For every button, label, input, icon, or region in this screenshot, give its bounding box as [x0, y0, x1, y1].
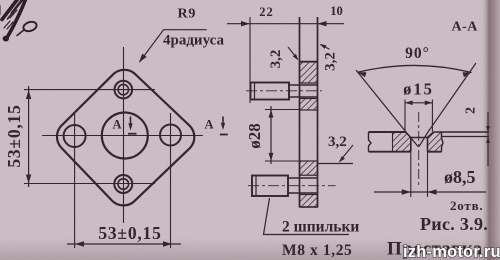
svg-text:3,2: 3,2 [328, 134, 347, 150]
svg-text:90°: 90° [405, 45, 430, 62]
svg-text:53±0,15: 53±0,15 [98, 223, 161, 243]
svg-text:A: A [205, 118, 214, 132]
svg-text:53±0,15: 53±0,15 [4, 104, 24, 167]
svg-text:2: 2 [464, 107, 479, 114]
svg-text:ø15: ø15 [403, 80, 434, 99]
svg-text:A-A: A-A [452, 20, 479, 35]
svg-text:10: 10 [330, 4, 343, 18]
svg-text:Рис. 3.9.: Рис. 3.9. [420, 214, 488, 234]
svg-text:ø8,5: ø8,5 [444, 167, 476, 187]
svg-text:4радиуса: 4радиуса [163, 33, 224, 49]
svg-text:A: A [113, 118, 122, 132]
svg-text:М8 х 1,25: М8 х 1,25 [282, 242, 352, 259]
svg-text:R9: R9 [178, 7, 197, 22]
svg-text:3,2: 3,2 [323, 52, 339, 71]
svg-text:ø28: ø28 [245, 123, 264, 149]
svg-text:22: 22 [259, 5, 274, 19]
svg-text:2 шпильки: 2 шпильки [282, 219, 359, 236]
svg-text:izh-motor.ru: izh-motor.ru [403, 243, 500, 260]
svg-text:2отв.: 2отв. [450, 198, 484, 213]
svg-text:3,2: 3,2 [268, 50, 284, 69]
